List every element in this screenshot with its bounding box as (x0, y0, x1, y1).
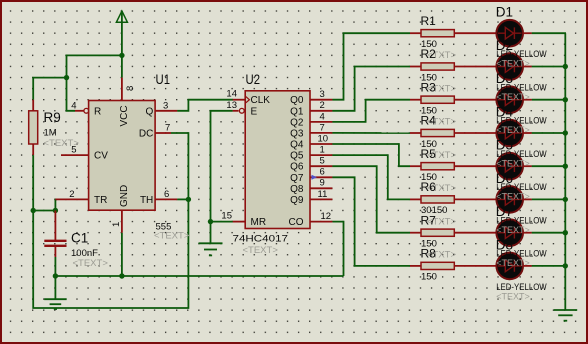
svg-text:MR: MR (251, 217, 267, 228)
svg-text:Q0: Q0 (290, 95, 304, 106)
svg-text:R9: R9 (44, 110, 61, 125)
svg-text:D3: D3 (496, 71, 513, 86)
svg-text:4: 4 (71, 100, 76, 111)
wire Q3 to R4 (332, 132, 410, 134)
svg-text:R2: R2 (421, 47, 437, 61)
pin lead R9 top (32, 100, 34, 111)
wire TH (177, 198, 188, 200)
wire Q1 to R2 (332, 67, 410, 111)
junction LED rail row 7 (563, 230, 568, 235)
ground rail (55, 275, 343, 277)
svg-text:R7: R7 (421, 213, 437, 227)
svg-text:CO: CO (289, 217, 304, 228)
svg-text:5: 5 (320, 156, 325, 167)
wire D6 to rail (532, 198, 566, 200)
pin lead D3 cathode (523, 99, 532, 101)
svg-text:DC: DC (139, 128, 153, 139)
capacitor C1 plate 1 (44, 240, 66, 242)
svg-text:13: 13 (226, 100, 237, 111)
svg-text:D7: D7 (496, 204, 513, 219)
svg-text:TR: TR (94, 195, 107, 206)
pin 9 lead U2 Q8 (310, 187, 332, 189)
svg-text:2: 2 (320, 100, 325, 111)
svg-text:TH: TH (140, 195, 153, 206)
LED D7 (496, 219, 523, 246)
pin 7 lead U1 DC (155, 132, 171, 134)
svg-text:6: 6 (164, 189, 169, 200)
svg-text:8: 8 (125, 86, 136, 91)
pin lead R8 right / LED D8 anode (454, 265, 496, 267)
resistor R4 body (421, 129, 454, 136)
svg-text:<TEXT>: <TEXT> (496, 258, 530, 268)
resistor R6 body (421, 196, 454, 203)
svg-text:D8: D8 (496, 237, 513, 252)
resistor R9 body (29, 111, 38, 144)
wire LED cathode rail (564, 33, 566, 309)
pin lead D7 cathode (523, 232, 532, 234)
svg-text:U2: U2 (246, 72, 261, 87)
svg-text:Q3: Q3 (290, 128, 304, 139)
svg-text:9: 9 (320, 178, 325, 189)
resistor R1 body (421, 30, 454, 37)
wire MR to ground (211, 221, 234, 223)
svg-text:<TEXT>: <TEXT> (496, 192, 530, 202)
svg-text:3: 3 (320, 89, 325, 100)
svg-text:Q9: Q9 (290, 195, 304, 206)
wire D5 to rail (532, 165, 566, 167)
pin lead D5 cathode (523, 165, 532, 167)
svg-text:<TEXT>: <TEXT> (496, 92, 530, 102)
pin lead R5 right / LED D5 anode (454, 165, 496, 167)
pin 1 lead U1 GND (121, 210, 123, 233)
junction TR branch on R9 wire (31, 208, 36, 213)
svg-text:D4: D4 (496, 105, 514, 120)
svg-text:VCC: VCC (119, 105, 130, 126)
pin lead R2 right / LED D2 anode (454, 66, 496, 68)
wire D1 to rail (532, 32, 566, 34)
junction LED rail row 3 (563, 97, 568, 102)
svg-text:Q5: Q5 (290, 151, 304, 162)
pin lead D2 cathode (523, 66, 532, 68)
ground symbol (E/MR) (210, 222, 212, 243)
svg-text:D6: D6 (496, 171, 513, 186)
LED D5 (496, 153, 523, 180)
svg-text:15: 15 (221, 211, 232, 222)
pin 15 lead U2 MR (233, 221, 246, 223)
svg-text:14: 14 (226, 89, 237, 100)
junction LED rail row 2 (563, 64, 568, 69)
svg-text:CV: CV (94, 151, 108, 162)
resistor R2 body (421, 63, 454, 70)
svg-text:10: 10 (318, 133, 329, 144)
svg-text:R6: R6 (421, 180, 437, 194)
svg-text:C1: C1 (71, 231, 88, 246)
wire Q5 to R6 (332, 155, 410, 199)
svg-text:3: 3 (163, 100, 168, 111)
svg-text:U1: U1 (156, 72, 171, 87)
pin 8 lead U1 VCC (121, 78, 123, 101)
resistor R7 body (421, 229, 454, 236)
LED D8 (496, 253, 523, 280)
junction LED rail row 4 (563, 130, 568, 135)
clock symbol on CLK pin (246, 97, 250, 103)
svg-text:<TEXT>: <TEXT> (496, 225, 530, 235)
svg-text:1M: 1M (44, 128, 57, 139)
pin lead R6 left (410, 198, 422, 200)
LED D3 (496, 86, 523, 113)
svg-text:R: R (94, 106, 101, 117)
wire TR branch (33, 210, 55, 212)
wire D7 to rail (532, 232, 566, 234)
LED D4 (496, 120, 523, 147)
pin 2 lead U1 TR (55, 198, 89, 200)
svg-text:<TEXT>: <TEXT> (496, 158, 530, 168)
svg-text:1: 1 (320, 145, 325, 156)
svg-text:Q7: Q7 (290, 173, 304, 184)
svg-text:4: 4 (320, 111, 325, 122)
wire D3 to rail (532, 99, 566, 101)
junction VCC/top-rail (119, 53, 124, 58)
pin 5 lead U1 CV (unconnected) (61, 154, 89, 156)
svg-text:12: 12 (321, 211, 332, 222)
junction C1 top (53, 208, 58, 213)
op-amp-style chip U1 555 body (89, 101, 156, 211)
pin 2 lead U2 Q1 (310, 110, 332, 112)
pin 11 lead U2 Q9 (310, 198, 332, 200)
junction TH/DC/bottom (186, 197, 191, 202)
svg-text:CLK: CLK (251, 95, 271, 106)
junction LED rail row 5 (563, 164, 568, 169)
capacitor C1 plate 2 (44, 245, 66, 247)
bubble on R pin (84, 108, 89, 113)
pin 4 lead U2 Q2 (310, 121, 332, 123)
junction E/MR/ground (208, 219, 213, 224)
ground symbol (under C1) (54, 276, 56, 299)
resistor R3 body (421, 96, 454, 103)
pin lead R7 left (410, 232, 422, 234)
pin lead D8 cathode (523, 265, 532, 267)
svg-text:7: 7 (165, 122, 170, 133)
junction R9-top branch (64, 75, 69, 80)
bubble on E pin (239, 108, 244, 113)
svg-text:74HC4017: 74HC4017 (233, 234, 289, 245)
svg-text:R1: R1 (421, 14, 437, 28)
wire TR corner (55, 199, 57, 211)
pin lead C1 bottom (54, 247, 56, 257)
svg-text:<TEXT>: <TEXT> (496, 291, 530, 301)
pin lead D4 cathode (523, 132, 532, 134)
svg-text:Q: Q (146, 106, 154, 117)
wire R9 top branch (33, 78, 66, 100)
svg-text:D5: D5 (496, 138, 513, 153)
resistor R5 body (421, 163, 454, 170)
wire D2 to rail (532, 66, 566, 68)
svg-text:<TEXT>: <TEXT> (154, 231, 190, 242)
svg-text:D1: D1 (496, 5, 513, 20)
svg-text:<TEXT>: <TEXT> (496, 59, 530, 69)
pin lead R8 left (410, 265, 422, 267)
wire E drop (211, 111, 233, 222)
svg-text:7: 7 (320, 122, 325, 133)
probe arrow Q7 (312, 175, 318, 180)
wire D8 to rail (532, 265, 566, 267)
svg-text:<TEXT>: <TEXT> (243, 245, 279, 256)
pin lead R9 bottom (32, 144, 34, 155)
pin 1 lead U2 Q5 (310, 154, 332, 156)
pin lead R2 left (410, 66, 422, 68)
svg-text:R5: R5 (421, 147, 437, 161)
pin 4 lead U1 R (75, 110, 84, 112)
svg-text:1: 1 (111, 222, 122, 227)
svg-text:Q6: Q6 (290, 162, 304, 173)
svg-text:R3: R3 (421, 80, 437, 94)
LED D2 (496, 53, 523, 80)
svg-text:Q8: Q8 (290, 184, 304, 195)
pin lead R4 left (410, 132, 422, 134)
junction GND/ground rail (119, 273, 124, 278)
wire D4 to rail (532, 132, 566, 134)
svg-text:Q2: Q2 (290, 117, 304, 128)
svg-text:<TEXT>: <TEXT> (44, 138, 80, 149)
junction LED rail row 6 (563, 197, 568, 202)
wire Q7 to R8 (332, 177, 410, 266)
pin 3 lead U2 Q0 (310, 99, 332, 101)
pin lead C1 top (54, 211, 56, 241)
wire top rail (66, 54, 122, 56)
pin lead R1 left (410, 32, 422, 34)
svg-text:11: 11 (318, 189, 328, 200)
pin lead R6 right / LED D6 anode (454, 198, 496, 200)
pin 10 lead U2 Q4 (310, 143, 332, 145)
wire Q6 to R7 (332, 166, 410, 233)
pin 12 lead U2 CO (310, 221, 332, 223)
svg-text:E: E (251, 106, 258, 117)
wire Q to CLK (177, 100, 233, 111)
svg-text:<TEXT>: <TEXT> (73, 258, 109, 269)
wire Q2 to R3 (332, 100, 410, 122)
LED D1 (496, 20, 523, 47)
wire R9 bottom to bottom rail (33, 155, 188, 308)
wire left drop to R pin (67, 55, 76, 111)
wire CO riser (332, 222, 343, 276)
junction LED rail row 8 (563, 263, 568, 268)
pin 6 lead U1 TH (155, 198, 177, 200)
wire U1 GND drop (121, 233, 123, 276)
pin 14 lead U2 CLK (233, 99, 246, 101)
power terminal VCC arrow (116, 11, 127, 22)
chip U2 74HC4017 body (245, 91, 310, 229)
svg-text:2: 2 (69, 189, 74, 200)
svg-text:<TEXT>: <TEXT> (496, 125, 530, 135)
wire VCC stem (121, 11, 123, 78)
wire Q4 to R5 (332, 144, 410, 166)
svg-text:D2: D2 (496, 38, 513, 53)
pin lead D6 cathode (523, 198, 532, 200)
pin 6 lead U2 Q7 (310, 176, 332, 178)
pin 5 lead U2 Q6 (310, 165, 332, 167)
wire C1 bottom (54, 257, 56, 276)
svg-text:6: 6 (320, 167, 325, 178)
pin lead D1 cathode (523, 32, 532, 34)
pin lead R5 left (410, 165, 422, 167)
junction C1/ground rail (53, 273, 58, 278)
pin lead R1 right / LED D1 anode (454, 32, 496, 34)
resistor R8 body (421, 262, 454, 269)
svg-text:Q4: Q4 (290, 140, 304, 151)
pin 7 lead U2 Q3 (310, 132, 332, 134)
ground symbol (LED rail) (554, 309, 578, 311)
pin lead R4 right / LED D4 anode (454, 132, 496, 134)
pin lead R3 right / LED D3 anode (454, 99, 496, 101)
wire DC to TH junction (171, 133, 188, 199)
svg-text:GND: GND (119, 185, 130, 207)
svg-text:Q1: Q1 (290, 106, 304, 117)
pin 13 lead U2 E (233, 110, 239, 112)
wire Q0 to R1 (332, 33, 410, 100)
pin lead R3 left (410, 99, 422, 101)
LED D6 (496, 186, 523, 213)
svg-text:R4: R4 (421, 114, 437, 128)
svg-text:R8: R8 (421, 247, 437, 261)
svg-text:150: 150 (421, 272, 437, 283)
pin lead R7 right / LED D7 anode (454, 232, 496, 234)
pin 3 lead U1 Q (155, 110, 177, 112)
